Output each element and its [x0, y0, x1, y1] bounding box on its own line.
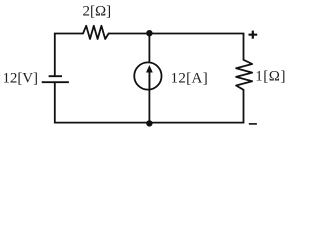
wire top rail right segment with top-right corner, down to R 1 ohm [109, 34, 244, 60]
node bottom junction dot [146, 120, 152, 126]
wire left lower segment with bottom-left corner to bottom rail [55, 82, 150, 122]
voltage source 12V battery long plate (bottom, positive) [42, 81, 69, 83]
polarity plus sign (top of R 1ohm) [249, 31, 258, 39]
wire bottom rail right segment with bottom-right corner up to R 1 ohm [149, 90, 243, 123]
wire middle branch upper (top node to current source) [148, 34, 150, 63]
svg-text:12[A]: 12[A] [171, 70, 208, 86]
svg-text:12[V]: 12[V] [3, 70, 39, 86]
current source 12A circle [134, 62, 161, 89]
wire top rail left segment with top-left corner, down to battery [55, 34, 83, 77]
svg-text:1[Ω]: 1[Ω] [255, 69, 285, 85]
current source 12A arrow (points up) [146, 65, 153, 89]
voltage source 12V battery short plate (top, negative) [49, 75, 62, 77]
svg-text:2[Ω]: 2[Ω] [83, 4, 112, 20]
resistor 1 ohm (vertical zigzag on right branch) [236, 60, 252, 90]
node top junction dot [146, 30, 152, 36]
resistor 2 ohm (horizontal zigzag on top rail) [83, 26, 109, 39]
polarity minus sign (bottom of R 1ohm) [249, 123, 257, 125]
wire middle branch lower (current source to bottom node) [148, 90, 150, 123]
